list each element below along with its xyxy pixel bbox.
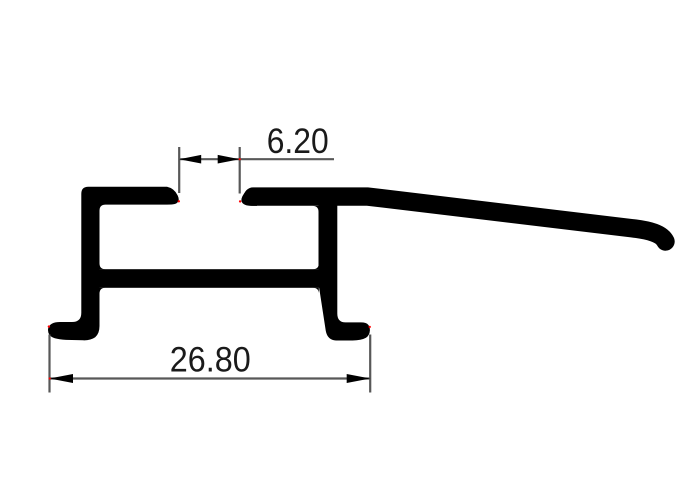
marker left foot tip [48,325,50,327]
svg-text:26.80: 26.80 [170,341,251,380]
aluminium profile: right wall + right foot [319,198,370,341]
extension line left of 26.80 [48,335,50,393]
aluminium profile: top-right flange + sloping blade with hooked end [253,197,666,242]
dimension line 26.80 [50,377,371,379]
dimension 6.20 [179,147,334,194]
arrowhead 26.80 left [50,374,74,383]
marker right flange tip [239,200,241,202]
arrowhead 26.80 right [347,374,371,383]
arrowhead 6.20 right [218,155,240,164]
svg-text:6.20: 6.20 [267,122,329,161]
marker dim line left end [49,377,51,379]
aluminium profile: left wall + top-left flange + left foot [48,187,179,341]
fillet web-top / left wall [100,263,106,269]
extension line left of 6.20 gap [178,147,180,193]
fillet web-bottom / right wall [313,288,319,294]
dimension line 6.20 [179,158,334,160]
extension line right of 6.20 gap [239,147,241,194]
marker dim 6.20 right arrow tip [239,158,241,160]
aluminium profile: top-right flange tip (beveled) [241,188,257,206]
fillet web-bottom / left wall [100,288,106,294]
fillet blade-bottom / right wall [313,206,319,212]
aluminium profile: middle web [99,269,320,288]
extension line right of 26.80 [369,335,371,393]
marker left flange tip [178,200,180,202]
red snap markers [48,158,371,380]
arrowhead 6.20 left [179,155,201,164]
marker right foot tip [369,326,371,328]
dimension 26.80 [50,335,371,393]
fillet web-top / right wall [313,263,319,269]
